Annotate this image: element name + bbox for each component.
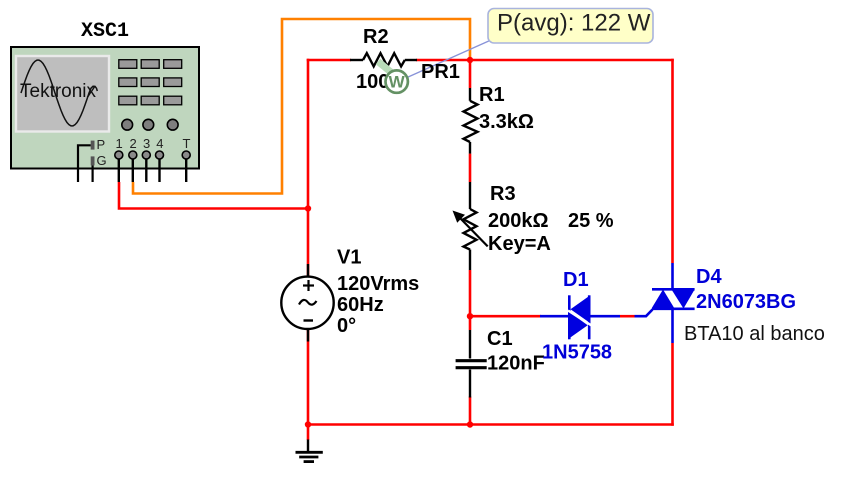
oscilloscope terminal 2 — [129, 136, 137, 182]
oscilloscope screen — [16, 56, 109, 132]
svg-text:Tektronix: Tektronix — [20, 81, 97, 102]
wire: between R1 and R3 (red) — [469, 154, 472, 182]
junction node: C1 top / diac wire — [467, 313, 473, 319]
oscilloscope buttons — [119, 60, 182, 105]
wire: scope channel1 to left rail (red) — [119, 182, 308, 209]
wire: top rail left of R2 (red) — [307, 59, 351, 62]
svg-text:200kΩ: 200kΩ — [488, 210, 549, 232]
svg-text:120Vrms: 120Vrms — [337, 273, 419, 295]
wire: scope channel2 to top rail (orange) — [133, 19, 470, 194]
svg-text:3.3kΩ: 3.3kΩ — [479, 111, 534, 133]
wire: diac to triac gate red segment — [620, 315, 635, 318]
svg-text:1: 1 — [116, 136, 123, 151]
oscilloscope terminal T — [182, 136, 190, 182]
svg-text:2: 2 — [130, 136, 137, 151]
svg-text:V1: V1 — [337, 247, 361, 269]
svg-text:25 %: 25 % — [568, 210, 614, 232]
wire: left rail to ground (red) — [307, 425, 310, 441]
svg-text:T: T — [183, 136, 191, 151]
svg-text:W: W — [389, 73, 406, 92]
svg-text:3: 3 — [143, 136, 150, 151]
ground — [296, 440, 323, 462]
potentiometer R3 — [453, 182, 488, 270]
svg-text:C1: C1 — [487, 328, 513, 350]
svg-text:R2: R2 — [363, 26, 389, 48]
svg-text:R3: R3 — [490, 183, 516, 205]
svg-text:BTA10 al banco: BTA10 al banco — [684, 323, 825, 345]
oscilloscope pin P — [78, 137, 105, 182]
svg-text:D4: D4 — [696, 266, 722, 288]
resistor R1 — [464, 88, 478, 154]
oscilloscope knobs — [122, 119, 178, 130]
power probe PR1 — [378, 62, 408, 93]
svg-text:60Hz: 60Hz — [337, 294, 384, 316]
resistor R2 — [350, 53, 417, 66]
wire: diac left lead (blue) — [540, 315, 568, 318]
triac D4 — [652, 289, 695, 310]
oscilloscope pin G — [91, 153, 107, 182]
oscilloscope terminal 3 — [142, 136, 150, 182]
svg-text:XSC1: XSC1 — [81, 20, 129, 43]
wire: triac anode top (blue) — [671, 263, 674, 290]
junction node: top rail / middle branch — [467, 57, 473, 63]
capacitor C1 — [456, 330, 487, 398]
wire: diac right lead (blue) — [591, 315, 621, 318]
junction node: left rail / bottom rail — [305, 421, 311, 427]
junction node: scope wire / left rail — [305, 205, 311, 211]
wire: C1 node to diac (red) — [470, 315, 541, 318]
wire: right rail upper (red) — [671, 59, 674, 263]
svg-text:120nF: 120nF — [487, 353, 545, 375]
svg-text:R1: R1 — [479, 84, 505, 106]
callout P(avg): 122 W — [488, 9, 653, 44]
wire: bottom rail (red) — [308, 423, 674, 426]
wire: top rail right of R2 (red) — [416, 59, 674, 62]
oscilloscope terminal 4 — [156, 136, 164, 182]
AC source V1 — [281, 264, 333, 342]
oscilloscope terminal 1 — [115, 136, 123, 182]
svg-text:Key=A: Key=A — [488, 233, 551, 255]
wire: between R3 and C1 node (red) — [469, 270, 472, 330]
svg-text:4: 4 — [156, 136, 163, 151]
wire: triac gate lead (blue) — [635, 310, 653, 317]
wire: right rail lower (red) — [671, 343, 674, 426]
junction node: C1 bottom / bottom rail — [467, 421, 473, 427]
svg-text:G: G — [97, 153, 107, 168]
svg-text:PR1: PR1 — [421, 61, 460, 83]
svg-text:1N5758: 1N5758 — [542, 342, 612, 364]
wire: triac anode bottom (blue) — [671, 308, 674, 343]
wire: C1 bottom to bottom rail (red) — [469, 397, 472, 425]
callout leader line — [407, 40, 491, 78]
svg-text:P: P — [97, 137, 106, 152]
oscilloscope label XSC1 — [81, 20, 129, 43]
svg-text:P(avg): 122 W: P(avg): 122 W — [497, 10, 651, 37]
oscilloscope XSC1 body — [11, 47, 199, 169]
svg-text:2N6073BG: 2N6073BG — [696, 291, 796, 313]
diac D1 — [568, 295, 592, 339]
svg-text:D1: D1 — [563, 269, 589, 291]
svg-text:0°: 0° — [337, 315, 356, 337]
wire: left rail (red) — [307, 59, 310, 426]
wire: middle branch top (red) — [469, 60, 472, 88]
